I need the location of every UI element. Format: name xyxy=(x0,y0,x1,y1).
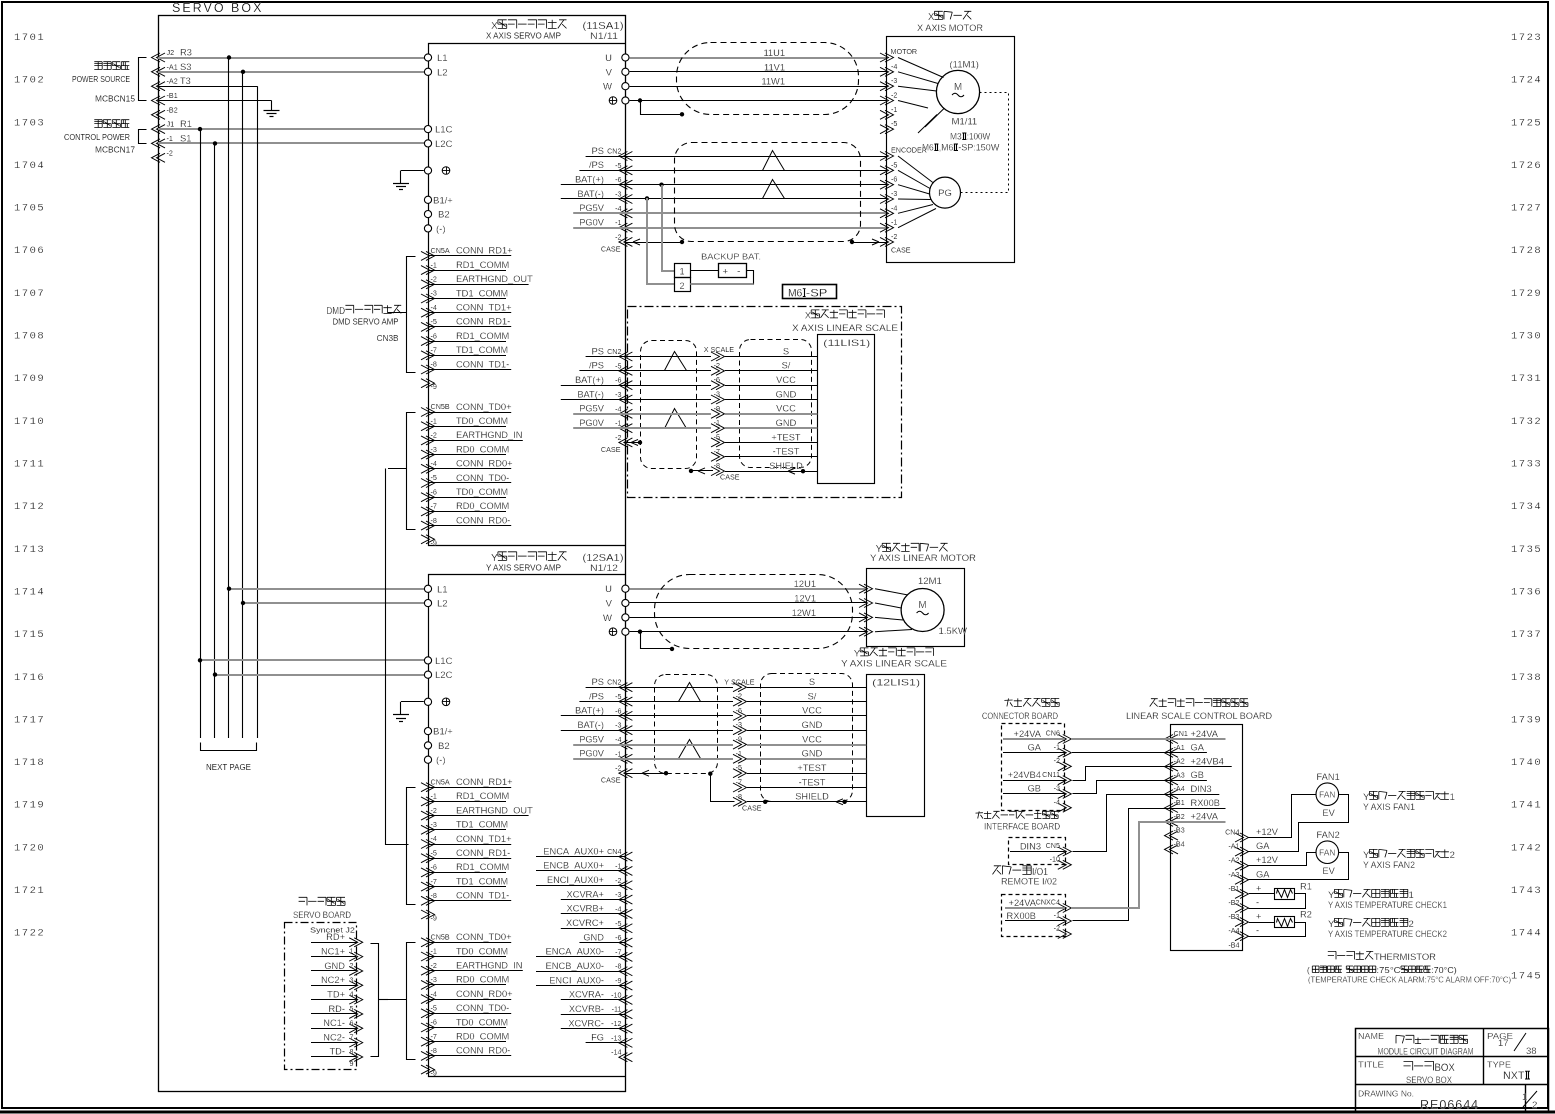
junction R3 xyxy=(227,55,231,59)
pin -2 scale connector signal S/ xyxy=(711,366,725,375)
svg-text:+: + xyxy=(723,267,729,278)
off-page connector NEXT PAGE xyxy=(201,743,257,751)
svg-text:-7: -7 xyxy=(431,1032,437,1041)
wire bus S3 vertical xyxy=(242,72,244,738)
wire battery 1 to + xyxy=(690,270,718,272)
svg-text:DRAWING No.: DRAWING No. xyxy=(1358,1089,1414,1099)
svg-text:-8: -8 xyxy=(736,792,742,801)
svg-text:B2: B2 xyxy=(438,210,450,221)
svg-text:1725: 1725 xyxy=(1511,117,1542,129)
svg-text:BAT(+): BAT(+) xyxy=(575,375,604,385)
svg-text:CONN_TD0-: CONN_TD0- xyxy=(456,473,509,483)
twisted pair BAT xyxy=(763,180,785,199)
svg-text:1708: 1708 xyxy=(14,331,45,343)
cable shield X encoder xyxy=(675,143,861,242)
svg-text:MODULE CIRCUIT DIAGRAM: MODULE CIRCUIT DIAGRAM xyxy=(1378,1047,1474,1057)
svg-text:VCC: VCC xyxy=(776,375,796,385)
svg-text:1743: 1743 xyxy=(1511,885,1542,897)
pin -4 CN2 signal PG5V xyxy=(619,209,633,218)
svg-text:ENCA_AUX0+: ENCA_AUX0+ xyxy=(543,846,604,856)
svg-text:(TEMPERATURE CHECK ALARM:75°C: (TEMPERATURE CHECK ALARM:75°C ALARM OFF:… xyxy=(1308,974,1511,984)
svg-text:EARTHGND_OUT: EARTHGND_OUT xyxy=(456,805,533,815)
svg-text:PG0V: PG0V xyxy=(579,217,605,227)
svg-text:R3: R3 xyxy=(180,48,192,58)
wire encoder PS xyxy=(625,156,887,158)
svg-text:-5: -5 xyxy=(431,848,437,857)
pin 7 servo board signal NC2- xyxy=(349,1038,363,1047)
terminal L1C X amp xyxy=(424,126,431,133)
title block xyxy=(1356,1029,1549,1112)
motor 12M1 xyxy=(901,589,944,632)
svg-text:TD0_COMM: TD0_COMM xyxy=(456,416,508,426)
svg-text:1706: 1706 xyxy=(14,245,45,257)
svg-text:-2: -2 xyxy=(167,148,173,157)
pin -A2 LSCB CN4 signal +12V xyxy=(1235,861,1249,870)
pin J2 servo board signal RD+ xyxy=(349,938,363,947)
svg-text:-2: -2 xyxy=(1054,924,1060,933)
terminal PE Y amp xyxy=(424,698,431,705)
pin -3 CN2 signal BAT(-) xyxy=(619,395,633,404)
svg-text:BAT(-): BAT(-) xyxy=(577,189,604,199)
svg-text:RD0_COMM: RD0_COMM xyxy=(456,501,509,511)
pin 3 servo board signal NC2+ xyxy=(349,981,363,990)
twisted pair S xyxy=(665,352,687,371)
pin CN5A X CN5A signal CONN_RD1+ xyxy=(421,251,435,260)
wire X scale S/ xyxy=(625,370,711,372)
pin -7 scale connector signal -TEST xyxy=(733,783,747,792)
svg-text:N1/11: N1/11 xyxy=(590,31,618,41)
svg-text:TD1_COMM: TD1_COMM xyxy=(456,345,508,355)
svg-text:-B3: -B3 xyxy=(1174,826,1185,835)
svg-text:-3: -3 xyxy=(431,445,437,454)
svg-text:-3: -3 xyxy=(431,820,437,829)
svg-text:-: - xyxy=(1256,898,1259,908)
pin CNXC4 remote IO signal +24VA xyxy=(1058,904,1072,913)
svg-text:+: + xyxy=(1256,883,1261,893)
wire scale case left xyxy=(625,442,640,444)
svg-text:J1: J1 xyxy=(167,120,175,129)
svg-text:6: 6 xyxy=(350,1018,354,1027)
connector MCBCN15 power source xyxy=(94,62,102,70)
svg-text:Y SCALE: Y SCALE xyxy=(724,678,754,687)
svg-text:CONN_TD0-: CONN_TD0- xyxy=(456,1003,509,1013)
pin -5 CN2 signal /PS xyxy=(619,166,633,175)
pin -2 MCBCN17 xyxy=(152,153,166,162)
pin -9 X CN5A xyxy=(421,379,435,388)
pin -2 connector board xyxy=(1058,762,1072,771)
svg-text:/PS: /PS xyxy=(589,160,604,170)
pin -B2 CN1 LSCB signal +24VA xyxy=(1165,817,1179,826)
terminal PE X amp xyxy=(424,167,431,174)
svg-text:L2: L2 xyxy=(437,67,448,78)
pin CN1 CN1 LSCB signal +24VA xyxy=(1165,735,1179,744)
svg-text:-6: -6 xyxy=(431,1018,437,1027)
svg-text:-1: -1 xyxy=(1054,742,1060,751)
svg-text:INTERFACE BOARD: INTERFACE BOARD xyxy=(984,822,1060,832)
pin -7 X CN5B signal RD0_COMM xyxy=(421,507,435,516)
svg-text:-5: -5 xyxy=(615,361,621,370)
bracket MCBCN15 xyxy=(139,58,147,101)
pin -5 CN2 signal /PS xyxy=(619,366,633,375)
wire B1 to ground xyxy=(158,100,272,102)
svg-text:GB: GB xyxy=(1191,770,1204,780)
svg-text:MCBCN17: MCBCN17 xyxy=(95,146,135,155)
encoder PG (pulse generator) xyxy=(930,177,961,208)
svg-text:S: S xyxy=(783,346,789,356)
wire bus R1 vertical xyxy=(200,129,202,738)
enclosure SERVO BOX xyxy=(159,16,626,1092)
terminal U X amp xyxy=(622,54,629,61)
terminal L2 X amp xyxy=(424,68,431,75)
svg-text:1733: 1733 xyxy=(1511,459,1542,471)
svg-text:1713: 1713 xyxy=(14,544,45,556)
terminal L2C Y amp xyxy=(424,671,431,678)
svg-text:-3: -3 xyxy=(714,389,720,398)
svg-text:DMD SERVO AMP: DMD SERVO AMP xyxy=(333,318,400,327)
svg-text:1727: 1727 xyxy=(1511,203,1542,215)
pin -11 CN4 signal XCVRB- xyxy=(619,1010,633,1019)
svg-text:-1: -1 xyxy=(167,134,173,143)
svg-text:U: U xyxy=(605,53,612,64)
wire encoder /PS xyxy=(625,170,887,172)
pin -13 CN4 signal FG xyxy=(619,1038,633,1047)
label thermistor xyxy=(1328,951,1336,959)
pin -9 CN4 signal ENCI_AUX0- xyxy=(619,981,633,990)
pin -3 scale connector signal GND xyxy=(733,726,747,735)
svg-text:XCVRC-: XCVRC- xyxy=(568,1018,604,1028)
svg-text:-4: -4 xyxy=(431,303,437,312)
wire encoder fan 1 xyxy=(898,156,934,183)
svg-text:CN5: CN5 xyxy=(1046,841,1060,850)
svg-text:1.5KW: 1.5KW xyxy=(939,626,968,637)
pin -B3 CN1 LSCB xyxy=(1165,831,1179,840)
svg-text:GND: GND xyxy=(583,932,604,942)
svg-text:R2: R2 xyxy=(1300,910,1312,920)
svg-text:CN2: CN2 xyxy=(607,147,621,156)
svg-text:+24VA: +24VA xyxy=(1191,812,1219,822)
pin -5 CN2 signal /PS xyxy=(619,697,633,706)
svg-text:-: - xyxy=(1256,926,1259,936)
pin -5 encoder xyxy=(880,166,894,175)
wire X scale VCC xyxy=(625,385,711,387)
component box REMOTE I/O xyxy=(993,866,1002,875)
svg-text:-8: -8 xyxy=(431,360,437,369)
svg-text:TYPE: TYPE xyxy=(1487,1060,1511,1070)
fan FAN2 xyxy=(1316,841,1339,864)
pin -6 X motor xyxy=(880,125,894,134)
svg-text:NC1-: NC1- xyxy=(323,1018,345,1028)
svg-text:VCC: VCC xyxy=(776,404,796,414)
terminal (-) Y amp xyxy=(424,756,431,763)
svg-text:Y AXIS FAN1: Y AXIS FAN1 xyxy=(1363,802,1415,812)
svg-text:V: V xyxy=(606,599,613,610)
svg-text:CASE: CASE xyxy=(742,803,762,812)
svg-text:-2: -2 xyxy=(615,232,621,241)
pin -1 scale connector signal GND xyxy=(711,424,725,433)
wire S1 tap to Y amp L2C xyxy=(215,674,428,676)
svg-text:-A1: -A1 xyxy=(1228,842,1239,851)
svg-text:BAT(+): BAT(+) xyxy=(575,706,604,716)
svg-text:-4: -4 xyxy=(431,989,437,998)
svg-text:+24VA: +24VA xyxy=(1191,729,1219,739)
pin -2 CN2 signal shield xyxy=(619,237,633,246)
resistor R1 thermistor xyxy=(1249,893,1274,895)
pin -B3 LSCB CN4 signal + xyxy=(1235,918,1249,927)
svg-text:+24VB4: +24VB4 xyxy=(1008,770,1041,780)
terminal V X amp xyxy=(622,68,629,75)
pin -2 Y CN5B signal EARTHGND_IN xyxy=(421,966,435,975)
svg-text:-6: -6 xyxy=(891,175,897,184)
svg-text:-9: -9 xyxy=(431,382,437,391)
svg-text:CONN_TD0+: CONN_TD0+ xyxy=(456,932,512,942)
svg-text:11V1: 11V1 xyxy=(764,62,785,72)
svg-text:RD-: RD- xyxy=(328,1004,345,1014)
svg-text:RX00B: RX00B xyxy=(1007,911,1036,921)
cable shield X scale 2 xyxy=(740,340,812,468)
svg-text:MCBCN15: MCBCN15 xyxy=(95,95,135,104)
svg-text:-2: -2 xyxy=(431,806,437,815)
pin -4 Y CN5A signal CONN_TD1+ xyxy=(421,840,435,849)
wire encoder BAT(-) xyxy=(625,198,887,200)
wire shield X scale xyxy=(801,469,805,473)
svg-text:CONN_TD1+: CONN_TD1+ xyxy=(456,834,512,844)
svg-text:-6: -6 xyxy=(714,375,720,384)
svg-text:S1: S1 xyxy=(180,133,191,143)
battery BACKUP BAT + - xyxy=(719,264,747,278)
svg-text:SHIELD: SHIELD xyxy=(769,461,803,471)
pin -3 Y CN5A signal TD1_COMM xyxy=(421,825,435,834)
pin -5 CN4 signal XCVRC+ xyxy=(619,924,633,933)
cable bracket X CN5B xyxy=(407,413,416,530)
svg-text:17: 17 xyxy=(1498,1038,1509,1049)
svg-text:CN11: CN11 xyxy=(1042,770,1060,779)
pin -3 X motor xyxy=(880,67,894,76)
svg-text:-A1: -A1 xyxy=(167,62,178,71)
wire cable X CN5B to Y CN5A xyxy=(386,469,409,845)
svg-text:PG0V: PG0V xyxy=(579,418,605,428)
pin -8 X CN5A signal CONN_TD1- xyxy=(421,365,435,374)
pin -A3 CN1 LSCB signal GB xyxy=(1165,776,1179,785)
svg-text:PS: PS xyxy=(592,677,604,687)
pin 1 servo board signal NC1+ xyxy=(349,952,363,961)
pin -14 CN4 xyxy=(619,1053,633,1062)
svg-text:CN5A: CN5A xyxy=(431,777,450,786)
svg-text:-7: -7 xyxy=(736,778,742,787)
svg-text:CONN_RD1-: CONN_RD1- xyxy=(456,848,510,858)
svg-text:CONN_RD0+: CONN_RD0+ xyxy=(456,989,513,999)
pin -7 scale connector signal -TEST xyxy=(711,452,725,461)
svg-text:-9: -9 xyxy=(431,538,437,547)
terminal L1C Y amp xyxy=(424,657,431,664)
pin CN5 interface board signal DIN3 xyxy=(1058,847,1072,856)
pin -5 scale connector signal +TEST xyxy=(711,438,725,447)
pin CN2 CN2 signal PS xyxy=(619,352,633,361)
svg-text:CONN_TD0+: CONN_TD0+ xyxy=(456,402,512,412)
svg-text:-5: -5 xyxy=(431,1004,437,1013)
option enclosure M6I-SP xyxy=(628,307,902,498)
ground B1 xyxy=(271,101,273,111)
svg-text:NEXT PAGE: NEXT PAGE xyxy=(206,762,251,772)
svg-text:1: 1 xyxy=(680,267,685,277)
svg-text:-1: -1 xyxy=(891,105,897,114)
svg-text:2: 2 xyxy=(1532,1100,1537,1111)
pin CN6 connector board signal +24VA xyxy=(1058,735,1072,744)
pin -6 Y CN5B signal TD0_COMM xyxy=(421,1023,435,1032)
svg-text:-B3: -B3 xyxy=(1228,912,1239,921)
svg-text:-B2: -B2 xyxy=(1228,898,1239,907)
pin -1 scale connector signal GND xyxy=(733,754,747,763)
svg-text:-11: -11 xyxy=(612,1005,622,1014)
ground X amp amp xyxy=(393,183,409,185)
svg-text:-B4: -B4 xyxy=(1174,839,1185,848)
pin -B1 CN1 LSCB signal RX00B xyxy=(1165,804,1179,813)
svg-text:-2: -2 xyxy=(1054,756,1060,765)
svg-text:-TEST: -TEST xyxy=(799,777,826,787)
pin -A2 CN1 LSCB signal +24VB4 xyxy=(1165,762,1179,771)
svg-text:BACKUP BAT.: BACKUP BAT. xyxy=(701,252,761,262)
pin CN4 LSCB CN4 signal +12V xyxy=(1235,833,1249,842)
wire PE X motor xyxy=(630,100,887,102)
svg-text:Y AXIS TEMPERATURE CHECK2: Y AXIS TEMPERATURE CHECK2 xyxy=(1328,929,1447,939)
wire encoder fan 2 xyxy=(898,170,930,188)
pin -3 X CN5B signal RD0_COMM xyxy=(421,450,435,459)
svg-text:CASE: CASE xyxy=(601,245,621,254)
svg-text:2: 2 xyxy=(350,961,354,970)
svg-text:-1: -1 xyxy=(615,218,621,227)
wire RX00B xyxy=(1073,809,1171,921)
wire Y scale GND xyxy=(625,758,733,760)
svg-text:POWER SOURCE: POWER SOURCE xyxy=(72,75,130,84)
wire +24VA xyxy=(1072,738,1171,740)
svg-text:-5: -5 xyxy=(891,119,897,128)
wire R1 return xyxy=(1249,894,1306,909)
pin -1 CN2 signal PG0V xyxy=(619,424,633,433)
bracket MCBCN17 xyxy=(139,130,147,144)
svg-text:1715: 1715 xyxy=(14,629,45,641)
wire encoder fan 6 xyxy=(898,209,936,228)
svg-text:GA: GA xyxy=(1191,743,1205,753)
svg-text:1737: 1737 xyxy=(1511,629,1542,641)
pin -5 X CN5A signal CONN_RD1- xyxy=(421,322,435,331)
svg-text:1723: 1723 xyxy=(1511,32,1542,44)
svg-text:-5: -5 xyxy=(615,692,621,701)
svg-text:-B1: -B1 xyxy=(1228,884,1239,893)
right margin line numbers 1723-1745 xyxy=(1511,32,1542,982)
svg-text:B1/+: B1/+ xyxy=(433,195,453,206)
terminal B1/+ X amp xyxy=(424,196,431,203)
svg-text:1704: 1704 xyxy=(14,160,45,172)
pin -1 remote IO signal RX00B xyxy=(1058,917,1072,926)
unconnected phase marks xyxy=(925,109,944,128)
pin -A1 CN1 LSCB signal GA xyxy=(1165,748,1179,757)
svg-text:-1: -1 xyxy=(431,260,437,269)
ground Y amp amp xyxy=(393,714,409,716)
wire DIN3 xyxy=(1073,795,1171,852)
pin -5 X CN5B signal CONN_TD0- xyxy=(421,479,435,488)
pin CN5B X CN5B signal CONN_TD0+ xyxy=(421,408,435,417)
svg-text:1702: 1702 xyxy=(14,75,45,87)
svg-text:-4: -4 xyxy=(615,735,621,744)
svg-text:U: U xyxy=(605,584,612,595)
svg-text:XCVRA+: XCVRA+ xyxy=(567,889,604,899)
wire FAN1 return xyxy=(1249,795,1349,852)
pin -B1 LSCB CN4 signal + xyxy=(1235,889,1249,898)
svg-text:CN4: CN4 xyxy=(1225,828,1239,837)
svg-text:(11SA1): (11SA1) xyxy=(583,20,624,32)
svg-text:-4: -4 xyxy=(891,62,897,71)
svg-text:N1/12: N1/12 xyxy=(590,563,618,573)
svg-text:-1: -1 xyxy=(714,418,720,427)
svg-text:MOTOR: MOTOR xyxy=(891,47,918,56)
svg-text:Y AXIS SERVO AMP: Y AXIS SERVO AMP xyxy=(486,563,562,572)
svg-text:CN4: CN4 xyxy=(607,847,621,856)
svg-text:CN1: CN1 xyxy=(1174,729,1188,738)
svg-text:RE06644: RE06644 xyxy=(1420,1098,1479,1112)
svg-text:-4: -4 xyxy=(615,404,621,413)
svg-text:VCC: VCC xyxy=(802,734,822,744)
svg-text:SERVO BOX: SERVO BOX xyxy=(1406,1075,1452,1085)
svg-text:GND: GND xyxy=(802,720,823,730)
svg-text:-A3: -A3 xyxy=(1228,870,1239,879)
svg-text:12V1: 12V1 xyxy=(794,594,816,604)
terminal B2 Y amp xyxy=(424,742,431,749)
svg-text:ENCB_AUX0+: ENCB_AUX0+ xyxy=(543,861,604,871)
svg-text:-1: -1 xyxy=(615,861,621,870)
pin 5 servo board signal RD- xyxy=(349,1009,363,1018)
wire 12W1 xyxy=(630,617,866,619)
pin J2 MCBCN15 xyxy=(152,53,166,62)
wire +12V to FAN2 xyxy=(1249,853,1316,866)
terminal PE Y amp xyxy=(622,628,629,635)
svg-text:CN3B: CN3B xyxy=(377,334,399,343)
svg-text:BAT(-): BAT(-) xyxy=(577,389,604,399)
pin CN2 CN2 signal PS xyxy=(619,683,633,692)
pin -6 encoder xyxy=(880,180,894,189)
svg-text:/PS: /PS xyxy=(589,361,604,371)
wire battery return xyxy=(747,271,754,285)
wire 12V1 xyxy=(630,602,866,604)
svg-text:1707: 1707 xyxy=(14,288,45,300)
pin -2 CN2 signal shield xyxy=(619,769,633,778)
svg-text:CASE: CASE xyxy=(720,473,740,482)
svg-text:NC1+: NC1+ xyxy=(321,946,345,956)
svg-text:S/: S/ xyxy=(808,691,817,701)
svg-text:-A3: -A3 xyxy=(1174,770,1185,779)
svg-text:-7: -7 xyxy=(431,346,437,355)
svg-text:11W1: 11W1 xyxy=(761,77,785,87)
wire encoder PG5V xyxy=(625,212,887,214)
svg-text:CN5B: CN5B xyxy=(431,402,450,411)
svg-text:EV: EV xyxy=(1322,866,1335,876)
svg-text:-SP:150W: -SP:150W xyxy=(958,143,999,153)
svg-text:-6: -6 xyxy=(615,175,621,184)
component box X AXIS MOTOR xyxy=(887,37,1015,263)
svg-text:GA: GA xyxy=(1256,869,1270,879)
svg-text:1: 1 xyxy=(1450,792,1455,803)
pin -7 CN4 signal ENCA_AUX0- xyxy=(619,952,633,961)
cable link stub Y CN5B xyxy=(388,999,407,1001)
svg-text:+24VA: +24VA xyxy=(1009,898,1037,908)
wire shield cable1 to Y scale case xyxy=(708,772,712,776)
pin -9 Y CN5A xyxy=(421,910,435,919)
svg-text:CONN_RD0-: CONN_RD0- xyxy=(456,515,510,525)
pin -6 scale connector signal VCC xyxy=(733,711,747,720)
wire bus R3 vertical xyxy=(228,58,230,739)
wire X scale GND xyxy=(625,427,711,429)
svg-text:CONN_RD1+: CONN_RD1+ xyxy=(456,777,513,787)
svg-text:1720: 1720 xyxy=(14,842,45,854)
svg-text:-A1: -A1 xyxy=(1174,743,1185,752)
